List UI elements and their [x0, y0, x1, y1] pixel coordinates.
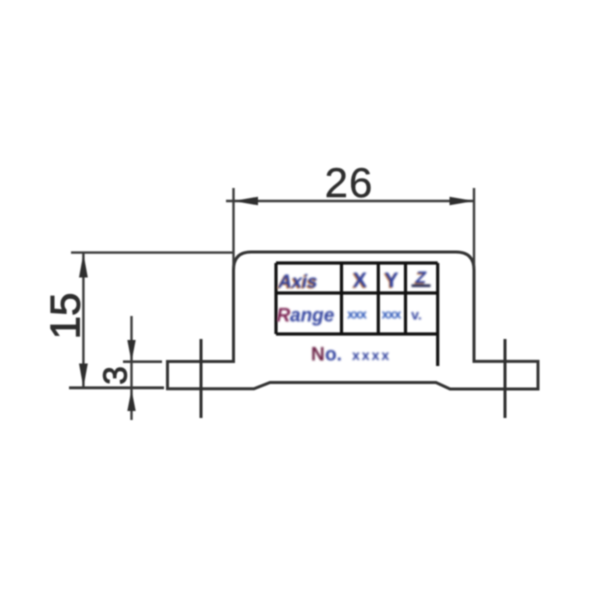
svg-text:X: X [353, 269, 367, 292]
svg-text:R: R [277, 306, 291, 327]
svg-text:Z: Z [415, 268, 427, 287]
svg-text:xxxx: xxxx [352, 347, 391, 363]
svg-text:Y: Y [384, 269, 398, 292]
svg-text:v.: v. [411, 307, 422, 323]
svg-text:Axis: Axis [277, 271, 317, 292]
svg-text:3: 3 [97, 366, 134, 384]
svg-text:15: 15 [42, 293, 89, 340]
svg-text:xxx: xxx [382, 307, 402, 322]
svg-text:ange: ange [290, 306, 335, 327]
svg-text:N: N [311, 345, 325, 366]
svg-text:o.: o. [325, 345, 342, 366]
svg-text:26: 26 [325, 159, 374, 206]
svg-text:xxx: xxx [347, 307, 367, 322]
